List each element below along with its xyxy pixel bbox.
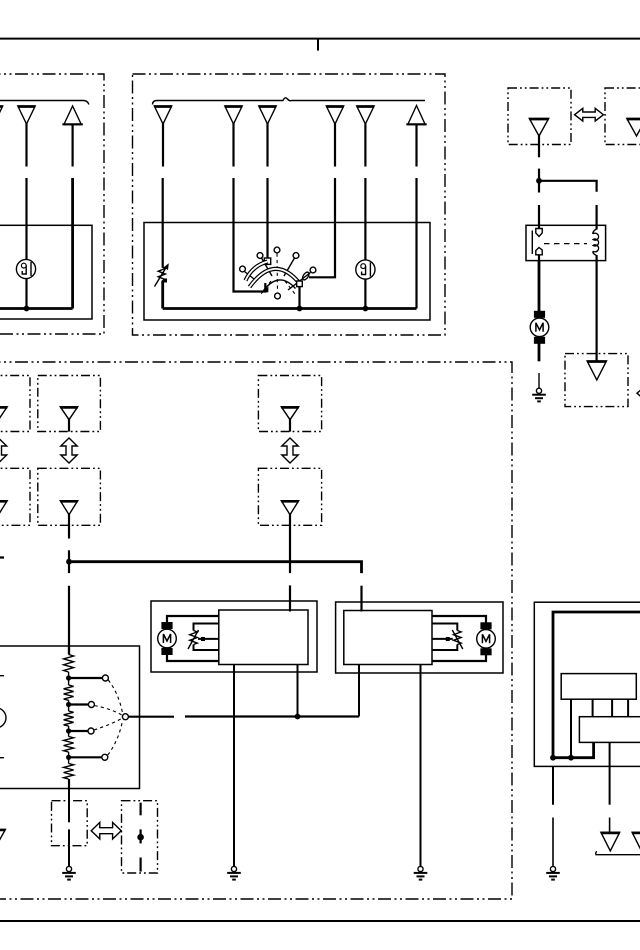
switch S1 contact b bbox=[257, 253, 263, 259]
tap wire F2 bbox=[69, 703, 89, 705]
module M2 outer box bbox=[151, 601, 317, 672]
dashed connector box H1 bbox=[52, 801, 88, 846]
wire P2 seg2 bbox=[289, 585, 291, 611]
connector terminal B3 bbox=[259, 106, 276, 124]
wire coil seg2 bbox=[595, 205, 597, 226]
motor M2 bbox=[158, 622, 177, 655]
connector terminal B5 bbox=[357, 106, 374, 124]
switch S1 contact c bbox=[274, 247, 280, 253]
unit G board 2 bbox=[579, 717, 640, 743]
connector terminal B6 (output) bbox=[406, 106, 426, 125]
tap dot F3 bbox=[66, 726, 71, 736]
junction dot H2 bbox=[137, 834, 144, 841]
dashed connector box P1b bbox=[38, 468, 101, 525]
motor M3 bbox=[477, 622, 496, 655]
relay K1 moving contact bbox=[536, 248, 542, 255]
bus bar A bbox=[0, 307, 73, 310]
pin G1a bbox=[570, 699, 572, 758]
ground G3 bbox=[414, 866, 428, 879]
wire A2 upper bbox=[71, 125, 73, 167]
dashed connector box C1 bbox=[508, 88, 571, 145]
wire B3 lower bbox=[266, 178, 268, 259]
relay K1 pin wires bbox=[539, 225, 597, 261]
switch S1 contact f bbox=[275, 293, 281, 299]
junction dot C bbox=[536, 178, 542, 184]
wire M3 bottom bbox=[432, 654, 486, 661]
dashed connector box H2 bbox=[122, 801, 158, 873]
wire P1 seg1 bbox=[68, 513, 70, 539]
tap dot F1 bbox=[66, 672, 71, 685]
frame top rail bbox=[0, 39, 640, 51]
connector terminal P1a bbox=[60, 407, 77, 432]
wire P1 seg2 bbox=[68, 550, 70, 573]
switch S2 common bbox=[122, 714, 128, 720]
wire B1 lower bbox=[162, 178, 164, 267]
switch S2 contact 2 bbox=[88, 702, 94, 708]
junction dot M2 bbox=[295, 714, 301, 720]
wire M3 pin1 bbox=[358, 665, 360, 717]
switch S2 dashed 2 bbox=[94, 706, 122, 716]
wire P2 seg1 bbox=[289, 513, 291, 573]
coupling arrow P2 bbox=[282, 438, 298, 463]
wire C1 seg3 bbox=[538, 205, 540, 226]
wire H2 dashed lead bbox=[140, 803, 142, 872]
switch S1 radial a bbox=[245, 272, 255, 280]
switch S2 dashed 4 bbox=[108, 720, 123, 755]
junction dot G2 bbox=[568, 755, 574, 761]
resistor R4e bbox=[64, 764, 74, 780]
stub bus P0 bbox=[0, 556, 4, 558]
branch wire to relay coil bbox=[539, 181, 597, 192]
relay K1 fixed contact bbox=[536, 229, 542, 237]
wire B2 upper bbox=[232, 123, 234, 167]
wire A2 lower bbox=[71, 178, 74, 309]
dashed connector box P0a bbox=[0, 376, 30, 432]
resistor R4a bbox=[64, 655, 74, 673]
stub F2 bbox=[0, 757, 4, 759]
wire B5 lower bbox=[364, 178, 366, 260]
dashed connector box P2b bbox=[258, 468, 321, 525]
switch S1 axis dashed bbox=[276, 254, 279, 293]
wire B1 to bus bbox=[161, 281, 164, 309]
motor M1 bbox=[530, 311, 549, 344]
pin G1d bbox=[627, 699, 629, 717]
switch S1 contact a bbox=[240, 266, 246, 272]
switch S1 radial b bbox=[262, 258, 273, 276]
tap dot F4 bbox=[66, 752, 71, 764]
connector terminal P0b bbox=[0, 501, 7, 527]
wire M2 pin2 bbox=[297, 665, 299, 717]
connector terminal J2 (partial) bbox=[632, 832, 640, 851]
connector terminal A0 (partial) bbox=[0, 106, 3, 124]
tap wire F1 bbox=[69, 677, 103, 679]
wire relay to motor bbox=[538, 261, 541, 313]
wire M3 top bbox=[432, 616, 486, 623]
switch S1 contact e bbox=[310, 267, 316, 273]
coupling arrow D (partial) bbox=[637, 386, 640, 402]
wire switch-to-module seg1 bbox=[128, 716, 174, 718]
wire relay to D bbox=[595, 261, 597, 362]
switch S1 dash right bbox=[285, 281, 295, 294]
resistor R4d bbox=[64, 737, 74, 753]
junction dot A bbox=[24, 306, 30, 312]
switch S1 inner arc bbox=[262, 280, 296, 293]
wire M1 ground stub bbox=[538, 373, 540, 388]
switch S1 contact d bbox=[293, 253, 299, 259]
stub F1 bbox=[0, 675, 4, 677]
wire L1 to bus bbox=[25, 279, 27, 309]
wire B6 upper bbox=[415, 125, 417, 167]
component box B bbox=[144, 223, 430, 321]
tap wire F3 bbox=[69, 730, 88, 732]
wire M2 bottom bbox=[167, 654, 219, 661]
wire M2 pin1 bbox=[233, 665, 235, 867]
frame bottom rail bbox=[0, 920, 640, 922]
coupling arrow P1 bbox=[61, 438, 77, 463]
relay K1 contact pivot bar bbox=[531, 231, 533, 255]
switch S2 dashed 3 bbox=[94, 718, 122, 730]
wire C1 seg2 bbox=[538, 169, 540, 193]
wire bus to module2 bbox=[360, 586, 362, 612]
dashed connector box C2 bbox=[605, 88, 640, 145]
bus bar G bbox=[553, 612, 640, 758]
terminal rail J bbox=[596, 852, 640, 855]
bus bar E bbox=[69, 562, 362, 573]
wire M3 pin2 bbox=[420, 665, 422, 867]
switch S1 pad B3 bbox=[264, 258, 270, 264]
connector terminal C2 bbox=[627, 119, 640, 137]
switch S1 dash left bbox=[261, 281, 271, 294]
lamp L2 bbox=[356, 260, 375, 279]
coupling arrow C bbox=[575, 108, 604, 121]
bus bar B bbox=[163, 307, 417, 310]
wire G out2 seg2 bbox=[609, 818, 611, 833]
connector terminal A2 (output) bbox=[62, 106, 82, 125]
wire L2 to bus bbox=[364, 279, 366, 309]
connector terminal C1 bbox=[529, 119, 548, 137]
connector terminal B4 bbox=[326, 106, 343, 124]
dashed enclosure B bbox=[133, 74, 446, 335]
dashed connector box P1a bbox=[38, 376, 101, 432]
wire F to connector bbox=[68, 789, 70, 823]
control unit G outer box bbox=[534, 602, 640, 766]
component box A bbox=[0, 225, 92, 319]
tap wire F4 bbox=[69, 756, 102, 758]
connector terminal P0a bbox=[0, 407, 7, 432]
dashed connector box D bbox=[565, 354, 628, 407]
wire F entry bbox=[68, 646, 70, 655]
connector terminal B1 bbox=[154, 106, 171, 124]
rheostat R2 bbox=[188, 624, 219, 651]
resistor R4b bbox=[64, 685, 74, 700]
module M2 inner unit bbox=[219, 610, 308, 665]
connector terminal J1 bbox=[601, 832, 620, 851]
switch S1 common wire bbox=[298, 287, 300, 309]
switch S2 contact 4 bbox=[102, 754, 108, 760]
rheostat R1 zigzag bbox=[158, 267, 165, 281]
switch S2 contact 1 bbox=[102, 675, 108, 681]
wire A1 lower bbox=[25, 178, 27, 260]
pin G1b bbox=[592, 699, 594, 717]
ground G4 bbox=[62, 866, 76, 879]
relay K1 box bbox=[526, 225, 606, 260]
connector terminal B2 bbox=[225, 106, 242, 124]
connector terminal P1b bbox=[60, 501, 77, 515]
supply rail A bbox=[0, 101, 89, 105]
junction dot S1 bbox=[297, 306, 303, 312]
connector terminal P2b bbox=[281, 501, 298, 515]
switch S1 radial d bbox=[284, 258, 295, 276]
wire F exit bbox=[68, 779, 70, 789]
switch S1 wiper arc small bbox=[246, 262, 268, 281]
rheostat R3 bbox=[432, 624, 463, 651]
pin G1c bbox=[611, 699, 613, 717]
wire B2 lower bbox=[234, 178, 266, 292]
switch S2 dashed 1 bbox=[108, 680, 122, 714]
switch S1 pad B4 bbox=[301, 271, 310, 281]
supply rail B bbox=[153, 98, 426, 105]
wire connector to ground bbox=[68, 829, 70, 866]
switch S1 radial e bbox=[288, 273, 311, 291]
blower motor M4 (partial) bbox=[0, 708, 6, 728]
wire switch-to-module seg2 bbox=[185, 715, 359, 717]
junction dot B5 bbox=[363, 306, 369, 312]
unit G board 1 bbox=[561, 674, 636, 700]
dashed connector box P0b bbox=[0, 468, 30, 525]
connector terminal P2a bbox=[281, 407, 298, 432]
dashed connector box P2a bbox=[258, 376, 321, 432]
ground G2 bbox=[227, 866, 241, 879]
wire B5 upper bbox=[364, 123, 366, 167]
dashed enclosure E bbox=[0, 362, 512, 899]
module M3 inner unit bbox=[344, 611, 432, 665]
wire G out2 seg1 bbox=[609, 742, 611, 804]
wire M2 top bbox=[167, 616, 219, 623]
relay K1 coil bbox=[593, 229, 599, 256]
wire P1 seg3 bbox=[68, 586, 70, 654]
wire A1 upper bbox=[25, 123, 27, 167]
rheostat R1 arrow bbox=[155, 263, 169, 286]
wire B4 lower bbox=[309, 178, 335, 277]
switch S1 wiper arc main bbox=[250, 269, 301, 287]
tap dot F2 bbox=[66, 700, 71, 711]
relay K1 dashed link bbox=[544, 243, 587, 245]
dashed enclosure A bbox=[0, 74, 104, 334]
ground G5 bbox=[546, 866, 560, 879]
resistor R4c bbox=[64, 711, 74, 726]
wire B1 upper bbox=[162, 123, 164, 167]
lamp L1 bbox=[16, 259, 35, 278]
wire B6 lower bbox=[415, 178, 417, 309]
wire G out1 seg2 bbox=[552, 818, 554, 867]
coupling arrow H bbox=[91, 822, 121, 839]
wire M1 down bbox=[538, 342, 541, 361]
module M3 outer box bbox=[336, 602, 503, 673]
ground G1 bbox=[532, 388, 546, 401]
connector terminal A1 bbox=[18, 106, 35, 124]
junction dot P1 bbox=[66, 559, 72, 565]
component box F bbox=[0, 646, 140, 789]
connector terminal H0 (partial) bbox=[0, 829, 5, 846]
wire B3 upper bbox=[266, 123, 268, 167]
wire B4 upper bbox=[334, 123, 336, 167]
junction dot G1 bbox=[550, 755, 556, 761]
switch S1 common pad bbox=[297, 281, 303, 287]
wire C1 seg1 bbox=[538, 135, 540, 157]
wire G out1 seg1 bbox=[552, 766, 554, 804]
switch S2 contact 3 bbox=[88, 728, 94, 734]
rheostat R1 tap dot bbox=[163, 279, 167, 283]
coupling arrow P0 bbox=[0, 438, 7, 463]
connector terminal D bbox=[587, 361, 606, 380]
